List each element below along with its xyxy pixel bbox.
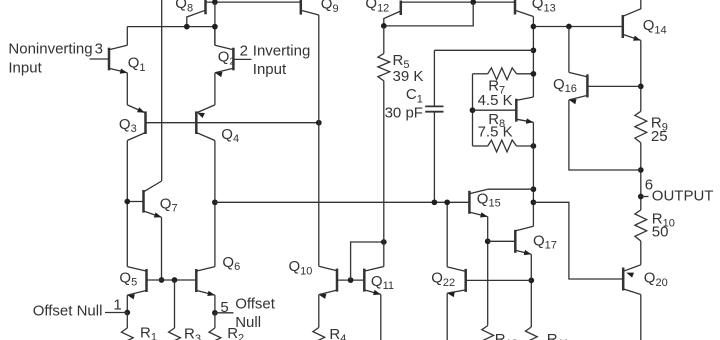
svg-text:Offset: Offset xyxy=(235,295,276,312)
svg-text:Noninverting: Noninverting xyxy=(8,40,92,57)
transistor Q8 (PNP current mirror, top cropped) xyxy=(187,0,206,27)
node Q12 collector junction xyxy=(381,23,387,29)
wire R9 down to output node xyxy=(640,143,642,210)
label Q22 xyxy=(431,270,455,289)
label R9 25 xyxy=(651,114,668,145)
wire R10 down to Q20 emitter xyxy=(640,241,642,265)
svg-text:Q1: Q1 xyxy=(128,55,146,74)
node Q13 collector to Q14 base xyxy=(531,24,537,30)
svg-text:Q12: Q12 xyxy=(365,0,389,14)
svg-text:Q20: Q20 xyxy=(644,270,668,289)
label R10 50 xyxy=(652,210,675,240)
transistor VBE multiplier (unlabeled NPN across R7/R8) xyxy=(516,97,533,124)
label Q4 xyxy=(221,126,239,145)
resistor R4 (cropped) xyxy=(313,328,325,340)
transistor Q15 (NPN current limit) xyxy=(469,189,487,217)
svg-text:Q5: Q5 xyxy=(119,269,137,288)
label Q2 xyxy=(218,48,236,67)
node Q17 base junction xyxy=(485,238,491,244)
wire base rail down to mirror node xyxy=(214,2,216,45)
node offset null 1 junction xyxy=(124,310,130,316)
wire Q12 collector down to R5 xyxy=(383,26,385,54)
svg-text:Q13: Q13 xyxy=(532,0,556,14)
wire Q2 emitter down to Q4 emitter xyxy=(214,73,216,105)
wire Q7 collector riser to top xyxy=(161,0,163,181)
label R11 xyxy=(547,331,569,340)
wire Q9 collector down to Q10 collector xyxy=(318,15,320,266)
label R3 xyxy=(184,326,201,340)
resistor R1 (cropped) xyxy=(121,328,133,340)
svg-text:39 K: 39 K xyxy=(393,68,424,85)
svg-text:Q6: Q6 xyxy=(222,254,240,273)
svg-text:C1: C1 xyxy=(406,86,423,105)
resistor R12 (cropped) xyxy=(482,326,494,340)
transistor Q7 (NPN mirror helper) xyxy=(144,181,162,218)
wire base line down to R3 xyxy=(174,280,176,328)
transistor Q10 (NPN Widlar, mirrored) xyxy=(319,266,337,299)
node Q16 base junction xyxy=(638,84,644,90)
label Q3 xyxy=(119,116,137,135)
resistor R3 (cropped) xyxy=(169,328,181,340)
label Q11 xyxy=(371,273,394,292)
svg-text:R3: R3 xyxy=(184,326,201,340)
label Q1 xyxy=(128,55,146,74)
wire R8 left lead xyxy=(473,145,488,147)
wire R7 left lead xyxy=(473,73,488,75)
wire Q4 collector down to Q6 collector xyxy=(214,141,216,267)
svg-text:30 pF: 30 pF xyxy=(385,104,423,121)
label R8 7.5 K xyxy=(478,111,513,141)
resistor R10 xyxy=(635,210,647,241)
transistor Q17 (NPN driver) xyxy=(515,226,533,255)
label Q14 xyxy=(643,17,667,36)
label Q8 xyxy=(175,0,193,14)
node Q22 base junction xyxy=(528,278,534,284)
wire C1 top lead xyxy=(433,50,435,106)
svg-text:Q7: Q7 xyxy=(160,195,178,214)
wire Q17 emitter down to R11 xyxy=(530,254,532,327)
label Q7 xyxy=(160,195,178,214)
wire Q20 base path xyxy=(533,202,623,279)
node C1 top tap xyxy=(531,47,537,53)
node VBE multiplier base tap xyxy=(470,107,476,113)
wire Q7 base stub xyxy=(127,201,143,203)
node base rail tie xyxy=(470,0,476,5)
wire Q22 base to Q17 emitter line xyxy=(466,279,532,281)
label pin 5 Offset Null xyxy=(220,295,275,331)
node Q7 emitter junction xyxy=(159,277,165,283)
resistor R5 xyxy=(378,54,390,81)
wire Q11 emitter to bottom rail xyxy=(380,294,382,340)
transistor Q3 (PNP cascode left) xyxy=(127,105,145,141)
svg-text:OUTPUT: OUTPUT xyxy=(652,187,714,204)
svg-text:4.5 K: 4.5 K xyxy=(478,92,513,109)
node Q4/Q6 collector tap to second stage xyxy=(212,199,218,205)
node Q7 base on Q3-Q5 column xyxy=(124,199,130,205)
wire Q17 base stub xyxy=(488,240,516,242)
wire offset null 5 stub xyxy=(215,312,234,314)
node OUTPUT junction xyxy=(638,194,644,200)
node Q1/Q2 collectors junction xyxy=(212,24,218,30)
svg-text:Q16: Q16 xyxy=(553,76,577,95)
node Q3-Q4 base junction on Q9 line xyxy=(316,120,322,126)
label R1 xyxy=(140,325,157,340)
label R12 xyxy=(495,331,518,340)
label Q16 xyxy=(553,76,577,95)
wire OUTPUT stub xyxy=(641,196,649,198)
resistor R2 (cropped) xyxy=(209,328,221,340)
svg-text:R1: R1 xyxy=(140,325,157,340)
svg-text:Q8: Q8 xyxy=(175,0,193,14)
label Q9 xyxy=(321,0,339,15)
wire base-collector tie of Q12 xyxy=(384,2,473,26)
label Inverting Input pin 2 xyxy=(240,42,311,78)
node offset null 5 junction xyxy=(212,310,218,316)
wire Q13 collector column upper xyxy=(532,17,534,98)
transistor Q5 (NPN mirror left, mirrored) xyxy=(127,267,146,300)
wire Q12/Q13 base rail xyxy=(401,1,515,3)
svg-text:R12: R12 xyxy=(495,331,518,340)
node Q16 emitter link junction xyxy=(638,167,644,173)
wire Q1 collector to Q8 mirror node xyxy=(127,26,215,28)
svg-text:Input: Input xyxy=(8,59,42,76)
wire Q11 collector up through R5 node xyxy=(383,242,385,267)
node Q8 base-collector tie on top rail xyxy=(212,0,218,5)
label Offset Null pin 1 xyxy=(33,296,122,319)
svg-text:Null: Null xyxy=(235,314,261,331)
wire R8 right lead xyxy=(517,145,534,147)
svg-text:Q15: Q15 xyxy=(477,191,501,210)
wire Q14 emitter down to R9 xyxy=(640,40,642,111)
wire Q7 emitter down to Q5/Q6 base line xyxy=(161,217,163,280)
wire R5 down to Q11 collector node xyxy=(383,81,385,242)
wire Q2 collector riser xyxy=(214,27,216,46)
transistor Q12 (PNP bias mirror, top cropped) xyxy=(384,1,401,26)
wire Q10 emitter down to R4 xyxy=(318,295,320,328)
svg-text:Q10: Q10 xyxy=(289,258,313,277)
transistor Q20 (PNP output bottom) xyxy=(623,265,641,295)
label Q20 xyxy=(644,270,668,289)
node base tie to Q11 collector/R5 xyxy=(381,239,387,245)
svg-text:Q11: Q11 xyxy=(371,273,394,292)
wire Q4/Q6 node to Q15 base xyxy=(215,201,470,203)
svg-text:3: 3 xyxy=(95,40,103,57)
wire offset null 1 down to R1 xyxy=(126,313,128,329)
wire Q20 collector to bottom rail xyxy=(640,295,642,340)
wire Q16 base stub xyxy=(587,85,640,87)
wire Q13 collector to Q14 base xyxy=(533,26,622,28)
wire Q3/Q4 common base line xyxy=(146,122,319,124)
resistor R8 (7.5 K) xyxy=(488,140,517,152)
wire Q2 base stub to pin 2 xyxy=(233,58,251,60)
resistor R11 (cropped) xyxy=(525,327,537,340)
svg-text:Q22: Q22 xyxy=(431,270,455,289)
node R3 tap on base line xyxy=(172,277,178,283)
label Q12 xyxy=(365,0,389,14)
label R5 39 K xyxy=(393,52,424,85)
wire Q22 emitter to bottom rail xyxy=(446,293,448,340)
wire Q16 collector riser xyxy=(568,27,570,73)
wire Q3 collector down to Q5 collector xyxy=(126,141,128,267)
wire output-stage column xyxy=(532,122,534,226)
svg-text:Q9: Q9 xyxy=(321,0,339,15)
svg-text:Input: Input xyxy=(253,61,287,78)
wire Q15 collector link xyxy=(488,188,534,190)
label Q15 xyxy=(477,191,501,210)
label pin 6 OUTPUT xyxy=(645,176,714,204)
transistor Q22 (NPN, mirrored) xyxy=(447,267,466,297)
wire Q1 collector riser xyxy=(126,27,128,46)
wire offset null 1 stub xyxy=(105,312,127,314)
svg-text:Q4: Q4 xyxy=(221,126,239,145)
transistor Q1 (NPN, input pair left) xyxy=(109,45,127,73)
wire Q1 emitter down to Q3 emitter xyxy=(126,73,128,105)
label Q10 xyxy=(289,258,313,277)
label R7 4.5 K xyxy=(478,77,513,109)
wire pin3 stub to Q1 base xyxy=(90,58,110,60)
resistor R9 xyxy=(635,111,647,143)
node Q16 collector tap xyxy=(566,24,572,30)
wire Q8/Q9 base rail xyxy=(206,1,301,3)
label Q6 xyxy=(222,254,240,273)
svg-text:Offset Null: Offset Null xyxy=(33,303,103,320)
wire Q15 emitter down to R12 xyxy=(487,217,489,326)
wire R7 right lead xyxy=(517,73,534,75)
svg-text:Q3: Q3 xyxy=(119,116,137,135)
transistor Q11 (NPN bias) xyxy=(364,267,384,296)
wire Q10/Q11 base line xyxy=(337,279,364,281)
label Q17 xyxy=(533,233,557,252)
wire R7/R8 left column xyxy=(472,74,474,146)
node Q10/Q11 base junction xyxy=(348,277,354,283)
node Q20 base-path junction xyxy=(531,199,537,205)
node Q15 collector junction xyxy=(531,186,537,192)
label C1 30 pF xyxy=(385,86,423,121)
label R2 xyxy=(227,325,244,340)
wire Q6 emitter down to offset null 5 xyxy=(214,295,216,313)
svg-text:R4: R4 xyxy=(329,326,346,340)
wire Q16 emitter to output link xyxy=(569,100,641,170)
wire VBE base stub xyxy=(473,109,517,111)
capacitor C1 (30 pF) xyxy=(425,106,443,111)
node R8 right junction xyxy=(531,143,537,149)
node C1 bottom on Q15 base wire xyxy=(432,199,438,205)
node Q22 collector on Q15 base wire xyxy=(444,199,450,205)
label Q5 xyxy=(119,269,137,288)
wire base jog up xyxy=(351,242,384,280)
wire C1 bottom lead xyxy=(433,112,435,203)
transistor Q4 (PNP cascode right, mirrored) xyxy=(196,105,215,141)
transistor Q16 (NPN driver, mirrored) xyxy=(569,72,588,104)
resistor R7 (4.5 K) xyxy=(488,68,517,80)
svg-text:25: 25 xyxy=(651,128,668,145)
transistor Q6 (NPN mirror right) xyxy=(196,267,215,296)
wire C1 top link xyxy=(434,49,533,51)
transistor Q13 (PNP current source, top cropped) xyxy=(515,0,533,17)
svg-text:50: 50 xyxy=(652,223,669,240)
node R7 right junction xyxy=(531,71,537,77)
wire Q5/Q6 base line xyxy=(147,279,197,281)
transistor Q2 (NPN, input pair right, mirrored) xyxy=(215,45,234,77)
wire Q5 emitter down to offset null 1 xyxy=(126,295,128,312)
svg-text:Q14: Q14 xyxy=(643,17,667,36)
svg-text:2: 2 xyxy=(240,42,248,59)
svg-text:R11: R11 xyxy=(547,331,569,340)
wire Q22 collector riser xyxy=(446,202,448,267)
svg-text:1: 1 xyxy=(113,296,121,313)
wire offset null 5 down to R2 xyxy=(214,313,216,328)
svg-text:5: 5 xyxy=(220,299,228,316)
svg-text:Q17: Q17 xyxy=(533,233,557,252)
label Noninverting Input pin 3 xyxy=(8,40,103,76)
node Q8 collector junction xyxy=(184,24,190,30)
svg-text:Inverting: Inverting xyxy=(253,42,311,59)
label R4 xyxy=(329,326,346,340)
transistor Q14 (NPN output top) xyxy=(623,0,641,41)
svg-text:7.5 K: 7.5 K xyxy=(478,124,513,141)
transistor Q9 (PNP current mirror, top cropped) xyxy=(301,0,319,15)
label Q13 xyxy=(532,0,556,14)
